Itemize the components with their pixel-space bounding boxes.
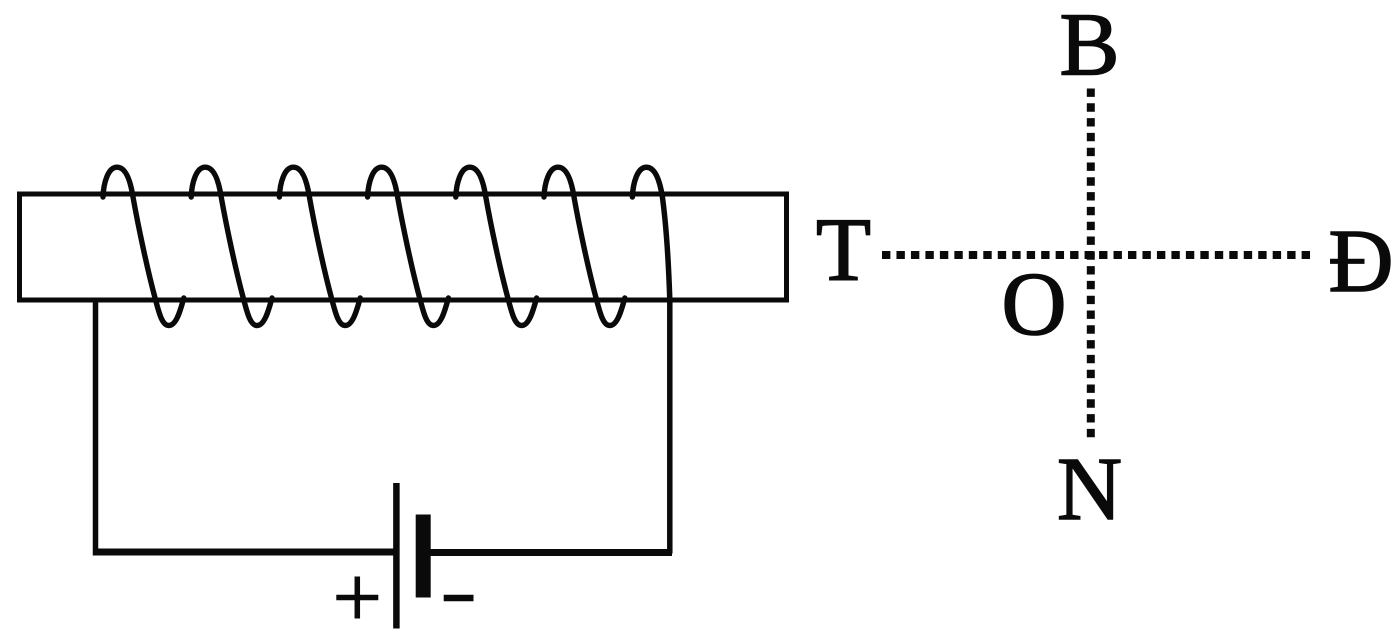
minus label xyxy=(444,595,474,602)
plus label xyxy=(336,577,378,619)
bottom wire to battery negative xyxy=(428,549,672,556)
svg-text:N: N xyxy=(1057,440,1122,539)
svg-text:B: B xyxy=(1059,0,1119,95)
coil L1 turn 3 xyxy=(279,167,360,325)
coil L1 turn 2 xyxy=(191,167,272,325)
coil L1 turn 6 xyxy=(544,167,625,325)
svg-text:Đ: Đ xyxy=(1329,212,1394,311)
svg-text:T: T xyxy=(816,201,871,300)
coil L1 turn 7 / right lead wire xyxy=(632,167,669,552)
coil L1 turn 5 xyxy=(456,167,537,325)
coil L1 turn 1 xyxy=(103,167,184,325)
svg-text:O: O xyxy=(1002,255,1067,354)
battery BT1 negative plate (short thick) xyxy=(416,515,431,598)
battery BT1 positive plate (long) xyxy=(393,483,400,629)
iron core bar xyxy=(20,194,787,300)
coil L1 turn 4 xyxy=(368,167,449,325)
wire bottom-left to battery plus xyxy=(93,549,394,556)
left lead wire xyxy=(93,298,99,556)
compass vertical dotted axis B-N xyxy=(1087,89,1095,438)
compass horizontal dotted axis T-D xyxy=(882,251,1310,259)
